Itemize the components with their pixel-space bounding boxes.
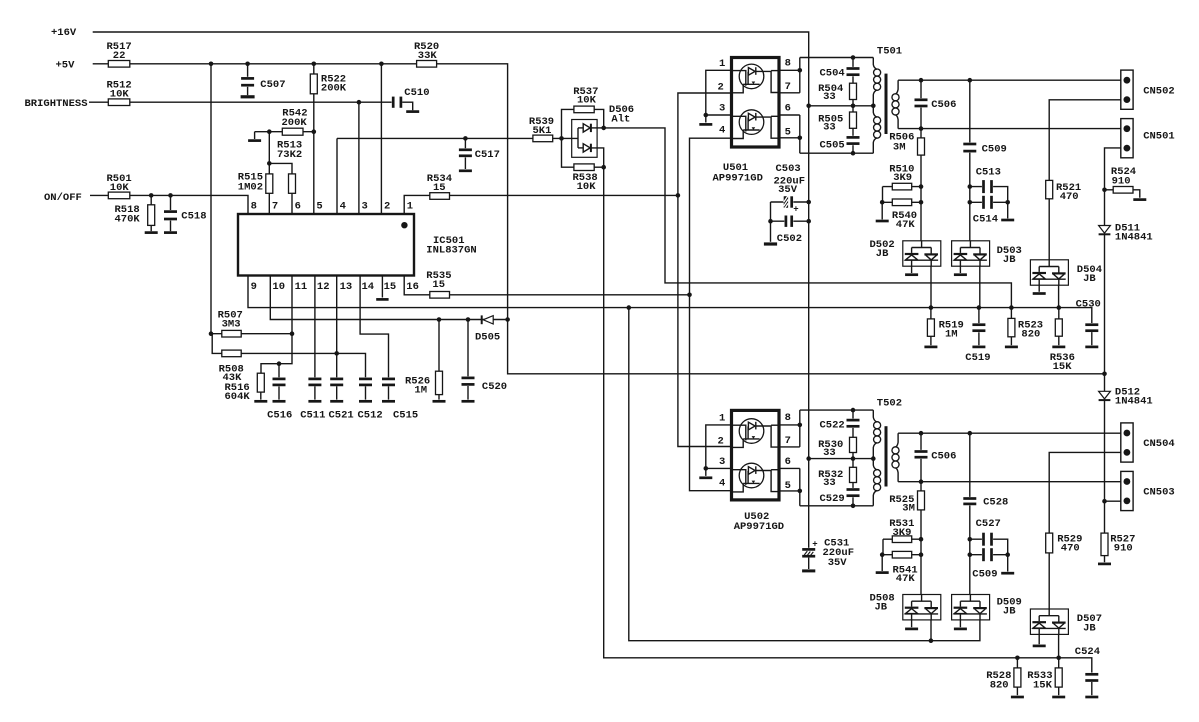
svg-text:C515: C515 xyxy=(393,410,418,422)
svg-text:JB: JB xyxy=(876,248,889,260)
resistor R513 and wire to IC pin 6 xyxy=(269,140,302,214)
diode D505 xyxy=(475,315,500,343)
svg-text:C506: C506 xyxy=(931,99,956,111)
svg-text:47K: 47K xyxy=(896,573,916,585)
svg-text:910: 910 xyxy=(1114,542,1133,554)
svg-text:1N4841: 1N4841 xyxy=(1115,231,1153,243)
wire T501 secondary top rail to CN502 pin 1 xyxy=(898,78,1121,83)
svg-text:3: 3 xyxy=(719,103,725,115)
svg-text:D505: D505 xyxy=(475,331,500,343)
svg-text:7: 7 xyxy=(785,81,791,93)
svg-text:2: 2 xyxy=(384,201,390,213)
resistor R505 xyxy=(818,106,856,134)
svg-text:C517: C517 xyxy=(475,149,500,161)
capacitor C522 xyxy=(820,410,861,437)
wire IC pin 1 to R534 line driving U501/U502 pin 2 xyxy=(404,193,680,214)
svg-text:470: 470 xyxy=(1061,542,1080,554)
IC501 top pin numbers xyxy=(251,201,414,213)
connector CN503 xyxy=(1121,471,1175,510)
transformer T501 primary winding lower xyxy=(873,106,880,153)
wire R531/R541 left ends to ground xyxy=(876,539,889,572)
node +16V supply input xyxy=(51,27,77,39)
svg-text:C503: C503 xyxy=(776,163,801,175)
svg-text:C520: C520 xyxy=(482,381,507,393)
capacitor C530 xyxy=(1076,298,1101,347)
svg-text:1: 1 xyxy=(407,201,413,213)
wire U501 pin2 / U502 pin2 tie line xyxy=(678,93,732,447)
svg-text:+: + xyxy=(793,205,798,215)
svg-text:JB: JB xyxy=(1083,273,1096,285)
resistor R519 xyxy=(924,308,963,347)
svg-text:C502: C502 xyxy=(777,233,802,245)
capacitor C529 xyxy=(820,483,861,506)
svg-text:2: 2 xyxy=(718,435,724,447)
resistor R531 xyxy=(883,518,921,543)
diode pack D508 xyxy=(870,593,941,620)
capacitor C510 xyxy=(392,87,430,111)
svg-text:8: 8 xyxy=(785,412,791,424)
svg-text:+16V: +16V xyxy=(51,27,77,39)
svg-text:33: 33 xyxy=(823,91,836,103)
wire R542 row with ground stub xyxy=(248,129,316,140)
resistor R532 xyxy=(818,459,856,490)
svg-text:C506: C506 xyxy=(931,450,956,462)
svg-text:14: 14 xyxy=(362,281,375,293)
capacitor C515 xyxy=(381,377,418,421)
D504 left diode ground xyxy=(1033,285,1046,293)
D507 left diode ground xyxy=(1033,634,1046,646)
svg-text:33: 33 xyxy=(823,121,836,133)
svg-text:CN502: CN502 xyxy=(1143,86,1175,98)
svg-text:C527: C527 xyxy=(976,518,1001,530)
svg-text:200K: 200K xyxy=(321,82,347,94)
svg-text:1N4841: 1N4841 xyxy=(1115,396,1153,408)
svg-text:7: 7 xyxy=(785,435,791,447)
transformer T502 secondary winding xyxy=(892,433,899,482)
wire IC pin 11 to R516/C516 node xyxy=(261,276,294,374)
IC IC501 INL837GN body xyxy=(238,214,477,276)
wire BRIGHTNESS line xyxy=(89,100,393,105)
diode pack D504 xyxy=(1030,260,1102,285)
resistor R508 row to C512 xyxy=(212,334,365,384)
svg-text:22: 22 xyxy=(113,50,126,62)
svg-text:33K: 33K xyxy=(418,50,438,62)
resistor R534 xyxy=(427,173,452,200)
capacitor C511 xyxy=(300,377,325,421)
diode pack D503 xyxy=(952,241,1022,266)
svg-text:5K1: 5K1 xyxy=(533,125,552,137)
svg-text:3M: 3M xyxy=(902,502,915,514)
svg-text:C510: C510 xyxy=(404,87,429,99)
wire D508 right diode to bottom rail xyxy=(930,620,932,641)
resistor R536 xyxy=(1050,308,1075,374)
svg-text:820: 820 xyxy=(990,679,1009,691)
wire IC pin 4 feedback line to D506 input xyxy=(337,136,564,214)
svg-text:35V: 35V xyxy=(828,557,848,569)
node ON/OFF input xyxy=(44,192,82,204)
wire CN502 pin2 to R521 xyxy=(1049,100,1121,260)
svg-text:4: 4 xyxy=(719,477,725,489)
svg-text:8: 8 xyxy=(785,57,791,69)
svg-text:CN503: CN503 xyxy=(1143,486,1175,498)
D508 left diode ground xyxy=(905,620,918,629)
wire U502 pins 1,3 to ground xyxy=(699,425,731,478)
resistor R516 xyxy=(225,373,268,403)
svg-text:15: 15 xyxy=(432,279,445,291)
resistor R537 bypass xyxy=(562,86,604,139)
svg-text:8: 8 xyxy=(251,201,257,213)
U502 pin numbers left xyxy=(718,413,726,490)
svg-text:1M: 1M xyxy=(414,385,427,397)
resistor R506 chain down to D502 xyxy=(889,129,924,241)
svg-text:15: 15 xyxy=(433,182,446,194)
svg-text:ON/OFF: ON/OFF xyxy=(44,192,82,204)
svg-text:3M: 3M xyxy=(893,141,906,153)
wire CN503 pin2 to R527 xyxy=(1105,500,1121,502)
svg-text:6: 6 xyxy=(785,456,791,468)
svg-text:470K: 470K xyxy=(115,213,141,225)
wire IC pin 9 bus to C530 corner xyxy=(248,276,1092,324)
svg-text:47K: 47K xyxy=(896,219,916,231)
svg-text:C524: C524 xyxy=(1075,646,1100,658)
svg-text:C529: C529 xyxy=(820,493,845,505)
svg-text:6: 6 xyxy=(785,103,791,115)
diode pack D509 xyxy=(952,595,1022,620)
U502 upper MOSFET xyxy=(733,419,779,448)
connector CN504 xyxy=(1121,423,1175,462)
resistor R524 xyxy=(1105,166,1147,200)
svg-text:820: 820 xyxy=(1021,329,1040,341)
capacitor C505 xyxy=(820,128,861,153)
D506 lower diode xyxy=(578,144,606,170)
U501 upper MOSFET xyxy=(733,64,779,93)
svg-text:3K9: 3K9 xyxy=(893,172,912,184)
svg-text:200K: 200K xyxy=(282,117,308,129)
resistor R517 xyxy=(107,41,132,67)
svg-text:C512: C512 xyxy=(358,410,383,422)
node BRIGHTNESS input xyxy=(25,98,88,110)
svg-text:3M3: 3M3 xyxy=(222,318,241,330)
svg-text:35V: 35V xyxy=(778,184,798,196)
svg-text:C509: C509 xyxy=(982,144,1007,156)
svg-text:C505: C505 xyxy=(820,140,845,152)
D506 upper diode xyxy=(578,124,606,132)
D503 left diode ground xyxy=(954,266,967,275)
resistor R528 xyxy=(986,658,1024,697)
D509 left diode ground xyxy=(954,620,967,629)
wire CN501 pin2 to R524/D511 node xyxy=(1102,148,1121,226)
svg-text:C519: C519 xyxy=(965,352,990,364)
svg-text:T502: T502 xyxy=(877,398,902,410)
svg-text:BRIGHTNESS: BRIGHTNESS xyxy=(25,98,88,110)
MOSFET module U502 body xyxy=(732,410,780,500)
wire U501 pin4 / U502 pin4 drive from R535 xyxy=(690,138,732,491)
resistor R515 and wire to IC pin 7 xyxy=(238,132,273,214)
wire IC pin 16 to R535 line xyxy=(404,276,692,298)
capacitor C517 xyxy=(458,138,500,170)
svg-text:16: 16 xyxy=(406,281,419,293)
wire D506 top output to pin9 bus corner xyxy=(604,128,1012,308)
svg-text:C530: C530 xyxy=(1076,298,1101,310)
svg-text:C514: C514 xyxy=(973,213,998,225)
resistor R501 xyxy=(107,173,132,199)
D502 left diode ground xyxy=(905,266,918,275)
wire +5V junction down to IC pin 2 xyxy=(380,64,382,214)
wire D507 right diode to C524 rail xyxy=(1058,634,1060,657)
resistor R507 xyxy=(211,310,292,338)
connector CN501 xyxy=(1121,119,1175,158)
MOSFET module U501 body xyxy=(732,58,780,148)
resistor R542 xyxy=(282,108,308,136)
capacitor C528 chain down to D509 xyxy=(963,433,1009,594)
svg-text:C511: C511 xyxy=(300,410,325,422)
resistor R520 xyxy=(414,41,439,67)
resistor R541 xyxy=(882,551,921,585)
wire +16V rail to transformer center taps xyxy=(93,32,811,548)
svg-text:3K9: 3K9 xyxy=(893,527,912,539)
wire pin9 bus branch down to D508/D509 rail xyxy=(629,308,980,643)
transformer T502 primary winding lower xyxy=(873,459,880,506)
capacitor C504 xyxy=(820,58,861,84)
svg-text:CN504: CN504 xyxy=(1143,438,1175,450)
svg-text:AP9971GD: AP9971GD xyxy=(713,172,763,184)
wire T502 secondary bottom rail to CN503 pin 1 xyxy=(898,479,1121,484)
svg-text:13: 13 xyxy=(340,281,353,293)
svg-text:5: 5 xyxy=(785,480,791,492)
capacitor C520 xyxy=(461,320,507,402)
node +5V supply input xyxy=(56,59,76,71)
wire ON/OFF line to IC pin 8 xyxy=(90,193,248,214)
svg-text:3: 3 xyxy=(719,456,725,468)
wire U501 pins 1,3 to ground xyxy=(699,70,731,124)
resistor R538 bypass xyxy=(562,138,604,193)
svg-text:10K: 10K xyxy=(110,182,130,194)
svg-text:15K: 15K xyxy=(1053,361,1073,373)
transformer T502 core xyxy=(877,398,902,487)
svg-text:AP9971GD: AP9971GD xyxy=(734,521,784,533)
connector CN502 xyxy=(1121,70,1175,109)
U502 lower MOSFET xyxy=(733,463,779,492)
svg-text:C507: C507 xyxy=(260,79,285,91)
capacitor C531 electrolytic xyxy=(801,538,854,571)
capacitor C518 xyxy=(163,195,206,232)
capacitor C509 second xyxy=(970,547,1014,580)
resistor R529 xyxy=(1046,533,1083,554)
U502 pin numbers right xyxy=(785,412,791,492)
svg-text:604K: 604K xyxy=(225,391,251,403)
svg-text:10K: 10K xyxy=(577,94,597,106)
wire T502 primary rails and U502 drain connections xyxy=(779,408,876,508)
resistor R533 xyxy=(1027,658,1065,697)
svg-text:73K2: 73K2 xyxy=(277,149,302,161)
diode pack D506 box xyxy=(572,104,634,157)
D506 input wire xyxy=(562,128,579,148)
svg-text:15: 15 xyxy=(384,281,397,293)
svg-text:C518: C518 xyxy=(181,211,206,223)
svg-text:7: 7 xyxy=(272,201,278,213)
svg-text:4: 4 xyxy=(719,124,725,136)
diode pack D507 xyxy=(1030,609,1102,634)
wire IC pin 12 to C511 xyxy=(314,276,316,378)
wire D504 right diode to pin9 bus xyxy=(1058,285,1060,307)
resistor R510 xyxy=(883,163,922,190)
capacitor C507 xyxy=(240,64,285,97)
svg-text:1: 1 xyxy=(719,413,725,425)
wire +5V tap down to R507 xyxy=(209,64,214,336)
svg-text:6: 6 xyxy=(295,201,301,213)
svg-text:C528: C528 xyxy=(983,497,1008,509)
svg-text:T501: T501 xyxy=(877,46,902,58)
svg-text:CN501: CN501 xyxy=(1143,130,1175,142)
capacitor C506 second xyxy=(914,433,957,482)
resistor R526 xyxy=(405,320,446,402)
capacitor C527 xyxy=(970,518,1008,555)
capacitor C519 xyxy=(965,308,990,364)
wire +5V rail through R520 down to D505 node and across to D511 node xyxy=(93,62,1107,377)
wire IC pin 13 to C521 xyxy=(336,276,338,378)
IC501 bottom pin numbers xyxy=(251,281,419,293)
wire IC pin 10 line to D505 xyxy=(270,276,507,322)
capacitor C506 xyxy=(914,80,957,128)
svg-text:33: 33 xyxy=(823,447,836,459)
resistor R504 xyxy=(818,83,856,106)
capacitor C509 upper xyxy=(963,80,1007,241)
capacitor C521 xyxy=(329,377,354,421)
resistor R535 xyxy=(426,270,451,298)
svg-text:43K: 43K xyxy=(223,372,243,384)
resistor R522 and wire down to IC pin 5 xyxy=(310,64,347,214)
wire D502 right diode to pin9 bus xyxy=(930,266,932,307)
svg-text:INL837GN: INL837GN xyxy=(426,245,476,257)
svg-text:15K: 15K xyxy=(1033,679,1053,691)
wire IC pin 14 jog to C515 xyxy=(360,276,388,378)
svg-text:10: 10 xyxy=(272,281,285,293)
wire IC pin 15 to ground xyxy=(376,276,388,300)
wire CN504 pin2 to R529 xyxy=(1049,452,1121,609)
svg-text:11: 11 xyxy=(295,281,308,293)
resistor R523 xyxy=(1005,308,1043,347)
svg-text:3: 3 xyxy=(362,201,368,213)
transformer T501 secondary winding xyxy=(892,80,899,128)
svg-text:12: 12 xyxy=(317,281,330,293)
svg-text:470: 470 xyxy=(1060,191,1079,203)
svg-text:2: 2 xyxy=(718,81,724,93)
capacitor C524 xyxy=(1075,646,1100,697)
U501 labels xyxy=(713,162,763,184)
wire D506 bottom output down to bottom rail and C524 xyxy=(604,167,1092,672)
resistor R518 xyxy=(115,195,158,232)
capacitor C516 xyxy=(267,364,292,422)
U501 lower MOSFET xyxy=(733,110,779,139)
svg-text:10K: 10K xyxy=(577,181,597,193)
svg-text:JB: JB xyxy=(1003,254,1016,266)
svg-text:1: 1 xyxy=(719,58,725,70)
wire T502 secondary top rail to CN504 pin 1 xyxy=(898,431,1121,436)
diode D511 xyxy=(1099,222,1153,391)
svg-text:JB: JB xyxy=(1003,606,1016,618)
capacitor C502 xyxy=(764,202,809,245)
svg-text:4: 4 xyxy=(340,201,346,213)
wire R510/R540 left ends to ground xyxy=(876,187,889,221)
diode pack D502 xyxy=(870,239,941,266)
capacitor C514 xyxy=(970,195,1014,225)
svg-text:C516: C516 xyxy=(267,410,292,422)
resistor R527 xyxy=(1098,501,1135,564)
U501 pin numbers left xyxy=(718,58,726,136)
transformer T502 primary winding upper xyxy=(873,410,880,459)
svg-text:5: 5 xyxy=(785,127,791,139)
U502 labels xyxy=(734,511,784,533)
wire D503 right diode to pin9 bus xyxy=(979,266,981,307)
svg-text:9: 9 xyxy=(251,281,257,293)
wire BRIGHTNESS junction down to IC pin 3 xyxy=(358,102,360,214)
svg-text:C509: C509 xyxy=(972,568,997,580)
svg-text:+5V: +5V xyxy=(56,59,76,71)
svg-text:C513: C513 xyxy=(976,166,1001,178)
svg-text:+: + xyxy=(812,540,817,550)
svg-text:5: 5 xyxy=(316,201,322,213)
capacitor C503 electrolytic xyxy=(771,163,809,214)
resistor R525 chain down to D508 xyxy=(889,482,924,595)
transformer T501 primary winding upper xyxy=(873,58,880,106)
resistor R540 xyxy=(882,199,921,231)
svg-text:Alt: Alt xyxy=(611,114,630,126)
svg-text:1M02: 1M02 xyxy=(238,181,263,193)
svg-text:1M: 1M xyxy=(945,329,958,341)
wire T501 secondary bottom rail to CN501 pin 1 xyxy=(898,126,1121,131)
capacitor C513 xyxy=(970,166,1008,202)
svg-text:910: 910 xyxy=(1112,175,1131,187)
resistor R521 xyxy=(1046,180,1082,203)
svg-text:C521: C521 xyxy=(329,410,354,422)
svg-text:JB: JB xyxy=(1083,622,1096,634)
resistor R530 xyxy=(818,437,856,459)
svg-text:33: 33 xyxy=(823,477,836,489)
U501 pin numbers right xyxy=(785,57,791,138)
svg-text:C522: C522 xyxy=(820,420,845,432)
svg-text:C504: C504 xyxy=(820,68,845,80)
transformer T501 core xyxy=(877,46,902,135)
resistor R512 xyxy=(107,80,132,106)
svg-text:JB: JB xyxy=(875,602,888,614)
capacitor C512 xyxy=(358,377,383,421)
resistor R539 xyxy=(529,116,554,142)
diode D512 xyxy=(1099,387,1153,504)
wire T501 primary rails and U501 drain connections xyxy=(779,55,876,155)
svg-text:10K: 10K xyxy=(110,89,130,101)
